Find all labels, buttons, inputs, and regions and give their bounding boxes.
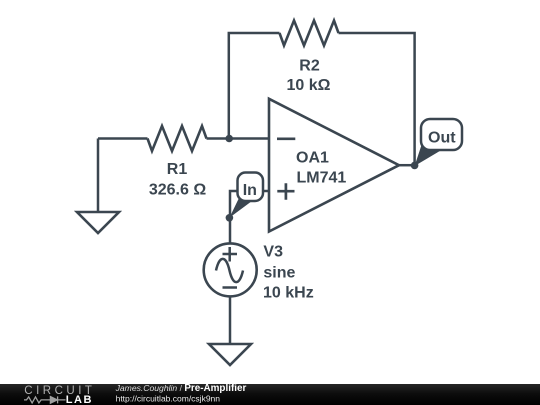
ground (left) <box>77 212 119 233</box>
svg-text:LAB: LAB <box>66 394 93 405</box>
footer bar <box>0 384 540 405</box>
resistor R1 <box>148 126 207 151</box>
svg-text:http://circuitlab.com/csjk9nn: http://circuitlab.com/csjk9nn <box>116 393 221 403</box>
source V3 minus mark <box>223 286 238 289</box>
node: output junction dot <box>411 162 419 170</box>
svg-text:LM741: LM741 <box>297 169 347 186</box>
wire: source bottom to ground <box>229 297 232 345</box>
source V3 sine squiggle <box>216 259 243 282</box>
svg-text:10 kHz: 10 kHz <box>263 284 314 301</box>
svg-text:326.6 Ω: 326.6 Ω <box>149 181 206 198</box>
source V3 circle <box>204 243 257 296</box>
svg-text:R1: R1 <box>167 161 188 178</box>
flag In tail <box>229 199 252 218</box>
node: feedback junction dot <box>225 135 233 143</box>
svg-text:In: In <box>243 182 257 199</box>
node: In flag junction dot <box>226 214 234 222</box>
svg-text:10 kΩ: 10 kΩ <box>287 77 331 94</box>
svg-text:OA1: OA1 <box>296 149 329 166</box>
wire: R1 left lead <box>98 137 148 140</box>
logo resistor-diode glyph <box>24 397 50 403</box>
op-amp minus input symbol <box>277 137 295 140</box>
svg-text:V3: V3 <box>263 244 283 261</box>
wire: feedback left vertical <box>229 33 280 139</box>
wire: op-amp output stub <box>399 164 415 167</box>
source V3 plus mark <box>223 247 238 262</box>
op-amp plus input symbol <box>277 183 294 200</box>
flag Out tail <box>415 145 442 166</box>
svg-text:R2: R2 <box>299 57 320 74</box>
wire: left ground drop <box>97 139 100 213</box>
svg-text:sine: sine <box>263 264 295 281</box>
flag In box <box>238 173 264 202</box>
svg-text:Out: Out <box>428 130 456 147</box>
wire: non-inverting input to source branch <box>230 191 269 244</box>
wire: top right + right vertical to output <box>339 33 415 166</box>
wire: R1 to inverting input <box>207 137 270 140</box>
ground (bottom) <box>209 344 251 365</box>
resistor R2 <box>280 21 339 46</box>
op-amp OA1 body <box>269 99 399 232</box>
flag Out box <box>421 119 462 150</box>
